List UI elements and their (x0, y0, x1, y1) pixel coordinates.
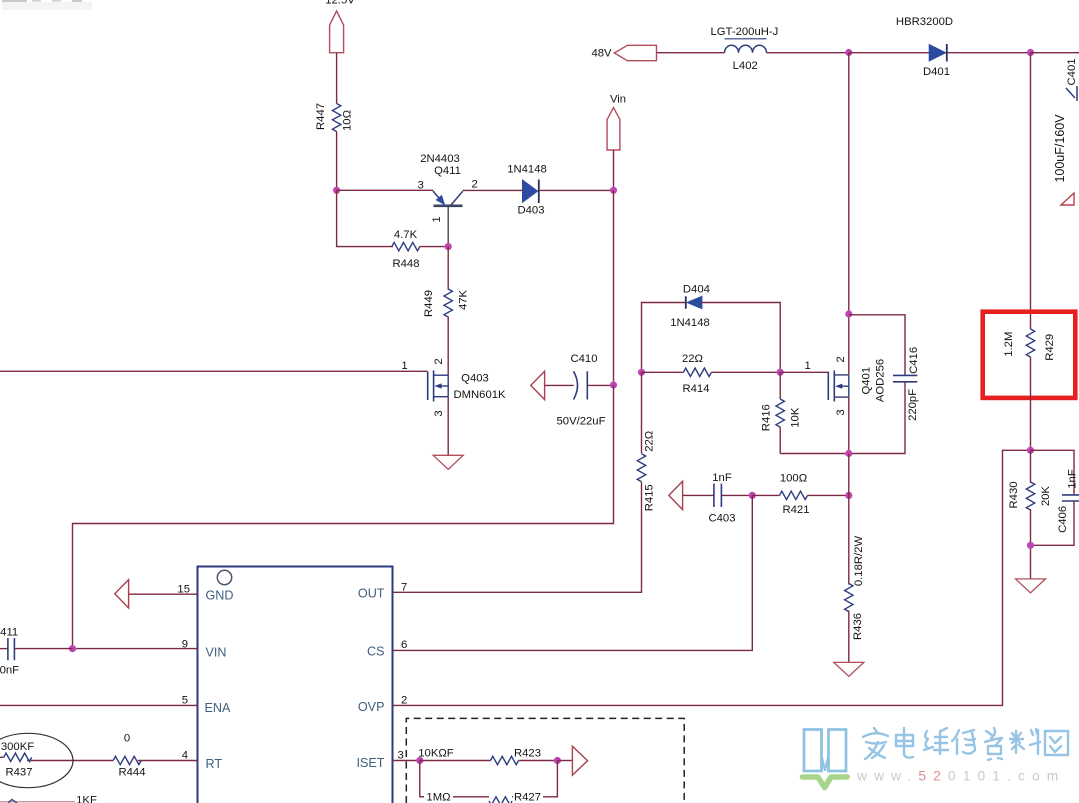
wire R414 to node (711, 371, 780, 373)
svg-text:R414: R414 (682, 383, 709, 395)
svg-text:3: 3 (433, 410, 445, 416)
node C403/R421/CS (749, 492, 756, 499)
wire node to arrow (557, 760, 571, 762)
resistor R444 (113, 733, 145, 779)
arrow C403 left (669, 481, 683, 509)
wire 48V to L402 (657, 52, 725, 54)
wire rail to R436 (848, 454, 850, 585)
svg-text:ISET: ISET (357, 756, 385, 770)
wire R444 to R437 (27, 760, 113, 762)
header ghost marks (2, 0, 92, 10)
watermark book underline (803, 777, 848, 788)
wire R415 net top (641, 372, 643, 453)
wire D401 to node (947, 52, 1031, 54)
wire R415 to OUT (393, 482, 642, 592)
pin 7 OUT (358, 582, 407, 601)
svg-text:OUT: OUT (358, 587, 385, 601)
svg-text:C411: C411 (0, 627, 18, 639)
pin 2 OVP (358, 695, 407, 715)
svg-text:220pF: 220pF (907, 389, 919, 421)
svg-text:C403: C403 (708, 513, 735, 525)
dashed box ISET network (406, 718, 684, 803)
svg-text:AOD256: AOD256 (875, 359, 887, 402)
wire R448 branch (337, 190, 393, 246)
svg-text:www.520101.com: www.520101.com (856, 769, 1065, 784)
svg-text:Q411: Q411 (434, 165, 461, 177)
wire D403 to Vin node (539, 189, 614, 191)
svg-text:12.5V: 12.5V (325, 0, 355, 7)
ground R436 (834, 662, 864, 676)
wire node to R414 (642, 371, 684, 373)
node Vin/D403 (610, 187, 617, 194)
resistor R436 (845, 536, 866, 640)
node source/bottom rail (845, 450, 852, 457)
diode D401 (896, 16, 953, 78)
wire main vertical to Q401 drain (848, 53, 850, 375)
svg-text:100nF: 100nF (0, 665, 19, 677)
transistor Q403 (428, 370, 506, 416)
power 48V (591, 45, 656, 60)
wire C416 bottom (780, 382, 905, 454)
wire node to D401 (849, 52, 929, 54)
svg-text:L402: L402 (733, 60, 758, 72)
inductor L402 (710, 26, 778, 72)
svg-text:300KF: 300KF (1, 741, 34, 753)
node C410/Vin (610, 381, 617, 388)
node R414 left (638, 369, 645, 376)
node ISET left (416, 757, 423, 764)
wire 12.5V to R447 (336, 53, 338, 104)
svg-text:22Ω: 22Ω (644, 431, 656, 452)
svg-text:VIN: VIN (206, 646, 227, 660)
svg-text:7: 7 (401, 582, 407, 594)
svg-text:R444: R444 (118, 767, 145, 779)
svg-text:0.18R/2W: 0.18R/2W (853, 536, 865, 587)
svg-text:LGT-200uH-J: LGT-200uH-J (710, 26, 778, 38)
wire R448 to node (420, 246, 448, 248)
svg-text:C401: C401 (1066, 58, 1078, 85)
svg-text:2: 2 (835, 356, 847, 362)
pin 5 ENA (0, 694, 231, 715)
node C416 branch (845, 310, 852, 317)
node L402/D401 (845, 49, 852, 56)
svg-text:100Ω: 100Ω (780, 473, 807, 485)
svg-text:0: 0 (124, 733, 130, 745)
svg-text:Q401: Q401 (860, 367, 872, 395)
wire node to R421 (752, 494, 779, 496)
resistor R429 (1003, 329, 1056, 361)
svg-text:D403: D403 (517, 205, 544, 217)
watermark hanzi wei (924, 728, 948, 754)
resistor R449 (423, 289, 470, 317)
resistor R447 (315, 103, 354, 132)
wire OVP riser (393, 450, 1031, 705)
node R421/R436 (845, 492, 852, 499)
svg-text:2: 2 (401, 695, 407, 707)
pin 3 ISET (357, 750, 420, 771)
svg-text:2: 2 (433, 358, 445, 364)
node R423 right (554, 757, 561, 764)
wire R421 to node (808, 494, 849, 496)
svg-text:1: 1 (401, 360, 407, 372)
power Vin (607, 94, 626, 151)
wire Q403 source to ground (447, 397, 449, 455)
svg-text:R430: R430 (1008, 481, 1020, 508)
watermark hanzi xiu (952, 730, 975, 754)
resistor R448 (392, 229, 420, 270)
svg-text:1MΩ: 1MΩ (426, 792, 450, 803)
resistor R427 (cut at bottom) (424, 790, 543, 803)
svg-text:OVP: OVP (358, 700, 385, 714)
svg-text:50V/22uF: 50V/22uF (557, 416, 606, 428)
svg-text:Vin: Vin (610, 94, 626, 106)
svg-text:1.2M: 1.2M (1003, 332, 1015, 357)
node R414/R416/gate (777, 369, 784, 376)
watermark hanzi jia (863, 728, 888, 759)
svg-text:3: 3 (417, 179, 423, 191)
watermark hanzi dian (896, 728, 913, 758)
svg-text:R423: R423 (514, 748, 541, 760)
wire R436 to ground (848, 611, 850, 663)
wire node to C406 (1031, 450, 1075, 494)
svg-text:1: 1 (431, 216, 443, 222)
wire D404 right leg (702, 303, 780, 373)
svg-text:6: 6 (401, 639, 407, 651)
wire Q411 pin2 to D403 (463, 179, 523, 191)
capacitor C416 (893, 347, 920, 421)
node base Q411 (333, 187, 340, 194)
wire R429 net top (1030, 53, 1032, 329)
ground arrow GND pin (115, 580, 129, 608)
svg-text:100uF/160V: 100uF/160V (1053, 114, 1067, 183)
diode D404 (670, 284, 710, 330)
resistor R423 (491, 748, 542, 765)
svg-text:D401: D401 (923, 66, 950, 78)
svg-text:R448: R448 (392, 258, 419, 270)
wire node to Q411 pin3 (337, 179, 434, 191)
wire Vin net down to VIN row (73, 385, 614, 649)
svg-text:1nF: 1nF (712, 472, 732, 484)
svg-text:R415: R415 (644, 484, 656, 511)
capacitor C411 (cut at left edge) (0, 627, 73, 677)
wire C416 branch top (849, 315, 905, 375)
svg-text:R416: R416 (760, 404, 772, 431)
arrow ISET right (572, 746, 587, 775)
node R430/C406 bottom (1027, 542, 1034, 549)
svg-text:2N4403: 2N4403 (420, 153, 460, 165)
resistor R421 (780, 473, 810, 517)
svg-text:10Ω: 10Ω (342, 110, 354, 131)
transistor Q411 (420, 153, 463, 247)
node C411/VIN (69, 645, 76, 652)
resistor R415 (637, 431, 655, 512)
watermark hanzi liao (1010, 729, 1040, 754)
highlight box R429 (983, 312, 1076, 398)
wire arrow to C403 (683, 494, 714, 496)
svg-text:48V: 48V (591, 48, 612, 60)
svg-text:22Ω: 22Ω (682, 353, 703, 365)
node R429/R430/C406 (1027, 447, 1034, 454)
svg-text:C410: C410 (570, 353, 597, 365)
capacitor C401 (cut at right edge) (1053, 58, 1078, 205)
wire R429 to node (1030, 357, 1032, 450)
svg-text:HBR3200D: HBR3200D (896, 16, 953, 28)
wire node to R423 (418, 748, 490, 761)
watermark hanzi wang (1045, 731, 1068, 755)
op-amp controller U401 box (198, 567, 393, 803)
diode D403 (507, 164, 547, 217)
wire Q401 source down (848, 397, 850, 453)
wire L402 to node (767, 52, 849, 54)
svg-text:1N4148: 1N4148 (670, 317, 710, 329)
capacitor C410 (531, 353, 614, 428)
capacitor C406 (1057, 469, 1079, 533)
node D401/C401 (1027, 49, 1034, 56)
svg-text:10KΩF: 10KΩF (418, 748, 454, 760)
node Q411 pin1 (445, 243, 452, 250)
pin 15 GND (129, 584, 234, 603)
wire Q403 gate from left edge (0, 360, 428, 372)
svg-text:10K: 10K (790, 407, 802, 428)
svg-text:ENA: ENA (205, 701, 231, 715)
pin 4 RT (138, 750, 223, 771)
wire R449 to Q403 drain (433, 317, 448, 376)
wire R447 to node (336, 132, 338, 191)
svg-text:1KF: 1KF (76, 794, 97, 803)
ground Q403 (433, 455, 463, 469)
ground R430 (1016, 579, 1046, 593)
pin 9 VIN (73, 639, 227, 660)
svg-text:R437: R437 (5, 767, 32, 779)
svg-text:1nF: 1nF (1067, 469, 1079, 489)
resistor R416 (760, 372, 801, 453)
resistor R437 (0, 741, 34, 779)
wire D404 left leg (642, 303, 686, 373)
svg-text:DMN601K: DMN601K (453, 389, 506, 401)
svg-text:R429: R429 (1044, 334, 1056, 361)
wire R423 to node (519, 760, 558, 762)
wire node to R449 (447, 247, 449, 290)
wire Vin down (613, 150, 615, 190)
svg-text:D404: D404 (683, 284, 710, 296)
wire node to right edge (1031, 52, 1079, 54)
ellipse highlight R437 (0, 733, 73, 787)
svg-text:3: 3 (835, 409, 847, 415)
svg-text:Q403: Q403 (461, 373, 489, 385)
resistor R43x ghost bottom (0, 794, 97, 803)
watermark book icon (804, 730, 846, 772)
svg-text:GND: GND (206, 589, 234, 603)
svg-text:RT: RT (206, 757, 223, 771)
wire C403 to node (722, 494, 753, 496)
transistor Q401 (828, 356, 886, 415)
svg-text:4.7K: 4.7K (394, 229, 418, 241)
wire C406 bottom (1031, 501, 1075, 545)
power 12.5V (325, 0, 355, 53)
svg-text:C416: C416 (908, 347, 920, 374)
svg-text:1N4148: 1N4148 (507, 164, 547, 176)
svg-text:47K: 47K (458, 289, 470, 310)
svg-text:3: 3 (398, 750, 404, 762)
svg-text:2: 2 (472, 179, 478, 191)
svg-text:R427: R427 (514, 792, 541, 803)
svg-text:C406: C406 (1057, 506, 1069, 533)
resistor R414 (682, 353, 711, 395)
wire R430 to ground (1030, 509, 1032, 579)
capacitor C403 (708, 472, 735, 525)
svg-text:R421: R421 (782, 504, 809, 516)
svg-text:CS: CS (367, 645, 385, 659)
svg-text:1: 1 (805, 360, 811, 372)
watermark hanzi zi (985, 728, 1002, 760)
wire node to Q401 gate (780, 360, 828, 372)
wire CS net (393, 495, 753, 650)
resistor R430 (1008, 450, 1052, 510)
svg-text:R449: R449 (423, 290, 435, 317)
wire Vin node down (613, 190, 615, 385)
svg-text:5: 5 (182, 694, 188, 706)
svg-text:R447: R447 (315, 103, 327, 130)
svg-text:20K: 20K (1040, 486, 1052, 507)
wire R427 row (420, 761, 558, 797)
svg-text:R436: R436 (852, 613, 864, 640)
pin 6 CS (367, 639, 407, 659)
